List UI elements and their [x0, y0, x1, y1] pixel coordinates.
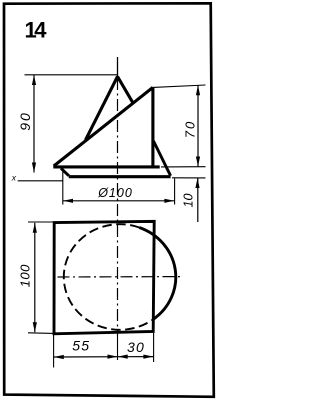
centerline (cone axis, front and top view): [117, 57, 119, 78]
diameter 100 dimension line: [63, 200, 174, 202]
vertical edge of cut: [151, 87, 154, 166]
100 dim arrow up: [33, 223, 37, 233]
100 dim arrow down: [33, 322, 37, 332]
55/30 dimension line: [54, 356, 154, 358]
upper base line: [53, 165, 159, 168]
70 dim arrow up: [196, 85, 200, 95]
70 dimension line: [197, 85, 199, 166]
svg-text:90: 90: [17, 111, 33, 131]
top view square: [54, 221, 154, 333]
svg-text:14: 14: [25, 17, 48, 42]
dia100 arrow right: [164, 199, 174, 203]
30 arrow right: [143, 355, 153, 359]
top view horizontal centerline: [58, 276, 181, 278]
70 dimension top extension line: [153, 85, 206, 87]
90 dimension line: [33, 75, 35, 173]
10 lower extension line: [172, 177, 206, 179]
55 arrow left: [54, 355, 64, 359]
30 right extension line: [153, 333, 155, 362]
svg-text:x: x: [11, 172, 17, 182]
100 dimension line: [34, 223, 36, 332]
90 dim arrow down: [32, 163, 36, 173]
100 dim top extension line: [28, 221, 54, 223]
lower base line: [69, 175, 171, 178]
30 arrow left: [118, 355, 128, 359]
70/10 shared extension line: [161, 166, 206, 168]
10 dimension line (below, arrow pointing up): [197, 178, 199, 222]
70 dim arrow down: [196, 157, 200, 167]
cone left edge lower part: [61, 168, 69, 176]
x axis line: [18, 180, 63, 182]
cone right edge lower part (behind vertical edge to base): [154, 141, 171, 176]
svg-text:10: 10: [181, 194, 195, 208]
svg-text:70: 70: [183, 120, 198, 138]
svg-text:100: 100: [18, 264, 33, 287]
border frame: [4, 3, 214, 397]
diameter 100 right extension line: [174, 179, 176, 205]
diameter 100 left extension line: [62, 171, 64, 205]
cone right edge (apex to cut line): [118, 77, 134, 104]
90 dim arrow up: [32, 75, 36, 85]
svg-text:55: 55: [72, 338, 90, 354]
apex extension line (thin, for 90 dim): [25, 74, 118, 76]
100 dim bottom extension line: [28, 332, 54, 335]
cone left edge (apex to cut line): [86, 77, 118, 141]
55 left extension line: [53, 335, 55, 368]
10 dim arrow up: [195, 178, 199, 188]
55 arrow right: [108, 355, 118, 359]
centerline extension to 55/30 dimension line: [117, 336, 119, 360]
base circle hidden part (dashed): [64, 224, 154, 330]
base circle visible part (solid, outside square): [139, 228, 175, 320]
svg-text:Ø100: Ø100: [97, 186, 133, 200]
dia100 arrow left: [63, 199, 73, 203]
cut plane line: [54, 87, 153, 166]
svg-text:30: 30: [127, 339, 145, 355]
